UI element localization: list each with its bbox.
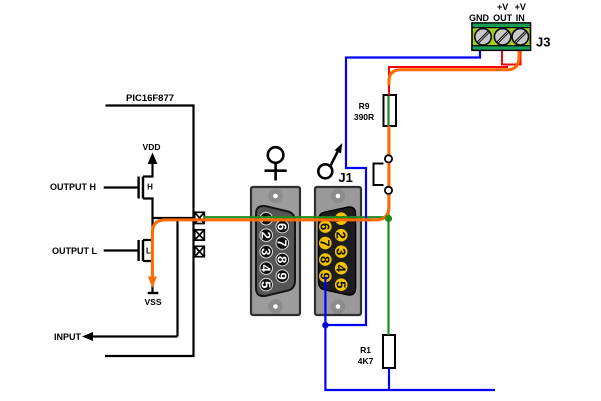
symbol male [318,143,342,178]
svg-text:INPUT: INPUT [54,332,82,342]
resistor R1 [383,335,395,368]
svg-text:4: 4 [259,265,274,273]
junction green node A [385,215,392,222]
connector J1 pins 1-5 [335,212,348,291]
switch S1 [374,155,393,194]
wire orange current path J3 IN to R9 [389,50,519,85]
svg-text:IN: IN [516,13,525,23]
svg-text:VDD: VDD [143,142,161,152]
svg-text:5: 5 [334,281,349,288]
pin symbol box 3 [195,246,205,256]
svg-text:3: 3 [334,248,349,255]
svg-text:6: 6 [318,223,333,230]
svg-text:OUT: OUT [493,13,513,23]
connector X1 pins 1-5 [260,212,273,291]
connector J1 male DB9 body [315,187,361,315]
arrow orange current to VSS [148,277,157,289]
svg-text:7: 7 [275,239,290,246]
symbol female [265,147,287,180]
svg-text:PIC16F877: PIC16F877 [126,93,174,104]
svg-text:2: 2 [259,232,274,239]
svg-text:7: 7 [318,239,333,246]
connector X1 female DB9 body [251,187,300,315]
wire green net horizontal PIC pin to node A [204,216,389,218]
pin symbol box 1 (PIC output pin) [195,212,205,223]
connector X1 pins 6-9 [276,220,289,282]
resistor R9 [384,95,397,126]
power VDD arrow [143,142,161,164]
svg-text:390R: 390R [354,112,374,122]
wire blue J1 pin 9 to bottom rail [325,277,495,390]
IC U1 PIC16F877 outline [105,106,194,357]
svg-text:5: 5 [259,281,274,288]
svg-text:R1: R1 [360,345,371,355]
svg-text:8: 8 [275,256,290,263]
transistor H [139,164,154,218]
svg-text:3: 3 [259,248,274,255]
wire gate lead H [104,186,138,188]
svg-text:J1: J1 [338,170,352,185]
svg-text:9: 9 [275,272,290,279]
svg-text:+V: +V [515,2,526,12]
wire node to INPUT [93,218,178,337]
svg-text:6: 6 [275,223,290,230]
arrow INPUT [82,332,93,341]
wire red jumper OUT-IN [502,50,521,65]
svg-text:GND: GND [469,13,490,23]
svg-text:2: 2 [334,232,349,239]
svg-text:L: L [146,247,151,256]
svg-text:H: H [147,183,153,192]
svg-text:+V: +V [497,2,508,12]
svg-text:J3: J3 [536,35,550,50]
junction blue node B [322,322,328,328]
svg-text:8: 8 [318,256,333,263]
wire blue GND net J3 to J1 pin 9 junction [325,50,480,325]
svg-text:4: 4 [334,265,349,273]
wire blue R1 bottom lead [388,368,390,390]
svg-text:OUTPUT L: OUTPUT L [52,246,97,256]
svg-text:4K7: 4K7 [358,356,374,366]
ground VSS [145,293,162,307]
wire gate lead L [104,249,138,251]
wire orange current path R9 to transistor L [152,126,389,279]
connector J1 pins 6-9 [319,220,332,282]
svg-text:VSS: VSS [145,297,162,307]
pin symbol box 2 [195,230,205,240]
svg-text:OUTPUT H: OUTPUT H [50,182,96,192]
wire green net vertical R9 to R1 through node A [387,96,389,335]
transistor L [139,218,153,293]
terminal block J3 [472,23,531,50]
svg-text:R9: R9 [359,101,370,111]
wire output node to PIC pin [153,217,194,219]
wire red R9 to J3 [389,67,508,95]
